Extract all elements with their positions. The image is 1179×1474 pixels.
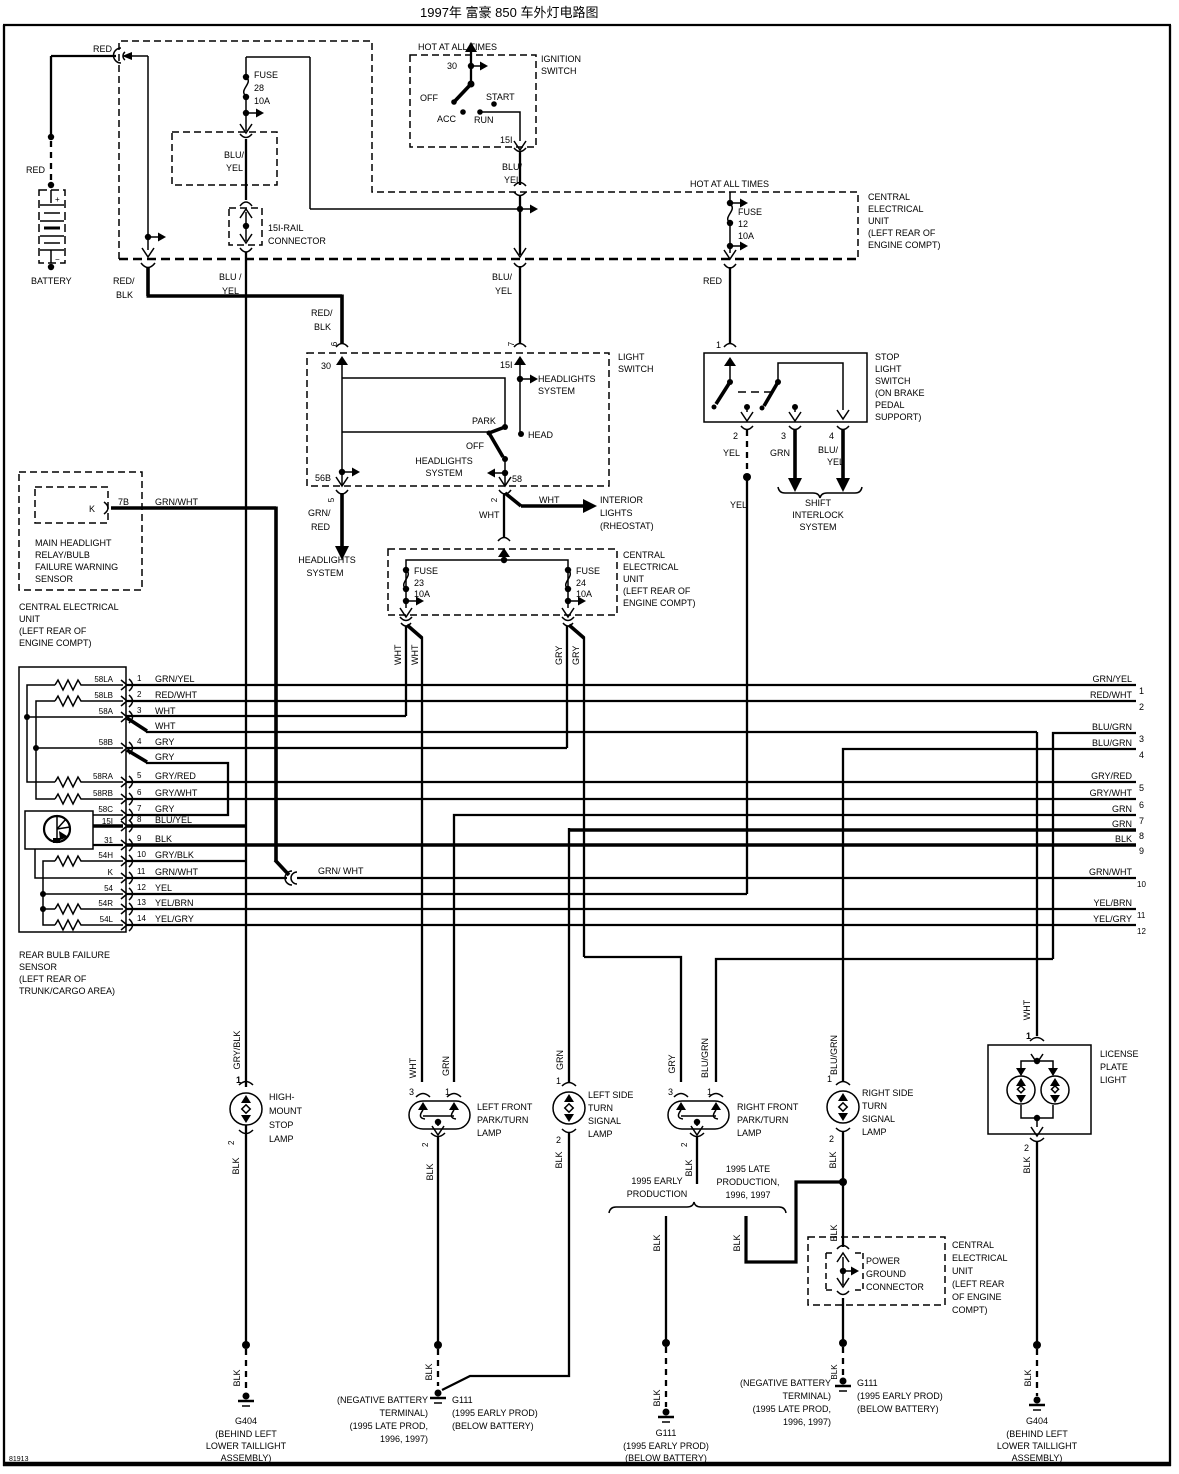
internal bus rows 2-4-6 [33, 701, 123, 799]
svg-text:2: 2 [421, 1142, 430, 1147]
svg-text:15I: 15I [500, 135, 513, 145]
svg-text:UNIT: UNIT [952, 1266, 973, 1276]
svg-text:SYSTEM: SYSTEM [799, 522, 836, 532]
svg-text:15I-RAIL: 15I-RAIL [268, 223, 304, 233]
svg-text:BLU/: BLU/ [502, 162, 523, 172]
svg-text:GRN: GRN [1112, 804, 1132, 814]
svg-text:1997年 富豪 850 车外灯电路图: 1997年 富豪 850 车外灯电路图 [420, 5, 598, 20]
CEU fuse 23/24 box [388, 549, 617, 615]
svg-text:(LEFT REAR OF: (LEFT REAR OF [19, 974, 87, 984]
contact pin 2 [741, 404, 753, 421]
stop light switch box [704, 353, 867, 422]
svg-text:15I: 15I [102, 817, 113, 826]
svg-text:ACC: ACC [437, 114, 457, 124]
pin 4 connector [121, 737, 142, 754]
svg-text:YEL: YEL [495, 286, 512, 296]
connector at CEU boundary (RED/BLK) [141, 263, 155, 268]
battery B+ wire (RED) [26, 56, 116, 188]
pin 11 connector [121, 867, 146, 884]
svg-text:BLU/: BLU/ [492, 272, 513, 282]
wire 12 YEL from stop light switch [126, 883, 747, 894]
svg-text:RED/: RED/ [113, 276, 135, 286]
svg-text:BLK: BLK [424, 1363, 434, 1380]
wire BLK 1995 early to ground [652, 1216, 670, 1407]
svg-text:BATTERY: BATTERY [31, 276, 72, 286]
pin 3 connector [789, 426, 801, 430]
15I-rail connector [229, 208, 326, 252]
contact PARK [502, 424, 508, 430]
svg-text:BLK: BLK [116, 290, 133, 300]
svg-text:4: 4 [1139, 750, 1144, 760]
wire BLU/YEL box to 15I-rail connector [240, 185, 252, 206]
wire GRY fuse 24 to right front lamp [569, 625, 681, 1082]
fuse 12 10A [724, 192, 762, 259]
fuse 24 output connector [562, 617, 574, 621]
svg-text:BLU/GRN: BLU/GRN [1092, 722, 1132, 732]
svg-text:12: 12 [1137, 927, 1146, 936]
svg-text:BLK: BLK [554, 1151, 564, 1168]
wire RED/BLK to light switch pin 6 [113, 268, 342, 343]
svg-text:BLK: BLK [828, 1151, 838, 1168]
svg-text:G111: G111 [452, 1395, 473, 1405]
svg-text:COMPT): COMPT) [952, 1305, 988, 1315]
1995 production split labels [627, 1164, 780, 1200]
svg-text:RUN: RUN [474, 115, 494, 125]
svg-text:BLK: BLK [732, 1234, 742, 1251]
svg-text:(1995 LATE PROD,: (1995 LATE PROD, [753, 1404, 831, 1414]
svg-text:BLK: BLK [1115, 834, 1132, 844]
title: 1997 Volvo 850 exterior lamps circuit diagram [420, 5, 598, 20]
svg-text:ENGINE COMPT): ENGINE COMPT) [19, 638, 92, 648]
svg-text:YEL/GRY: YEL/GRY [155, 914, 194, 924]
svg-text:12: 12 [137, 883, 146, 892]
svg-text:TURN: TURN [588, 1103, 613, 1113]
svg-text:ELECTRICAL: ELECTRICAL [623, 562, 679, 572]
terminal 30 feed arrow [447, 42, 488, 84]
wire 14 YEL/GRY [126, 914, 1146, 936]
svg-text:START: START [486, 92, 515, 102]
svg-text:GRY/BLK: GRY/BLK [232, 1031, 242, 1070]
svg-text:30: 30 [321, 361, 331, 371]
svg-text:BLU/GRN: BLU/GRN [1092, 738, 1132, 748]
svg-text:TURN: TURN [862, 1101, 887, 1111]
svg-text:GRY: GRY [155, 737, 174, 747]
svg-text:YEL: YEL [827, 457, 844, 467]
svg-text:SUPPORT): SUPPORT) [875, 412, 921, 422]
wire WHT fuse 23 to left front lamp [407, 625, 422, 1082]
svg-text:G111: G111 [857, 1378, 878, 1388]
wire fuse 28 feed from junction riser [246, 57, 520, 209]
wire 3 WHT to fuse 23 [126, 706, 406, 716]
svg-text:CENTRAL: CENTRAL [952, 1240, 994, 1250]
svg-text:LIGHT: LIGHT [618, 352, 645, 362]
svg-text:BLU/YEL: BLU/YEL [155, 815, 192, 825]
high-mount stop lamp [227, 1031, 302, 1175]
svg-text:58RA: 58RA [93, 772, 114, 781]
svg-text:RIGHT SIDE: RIGHT SIDE [862, 1088, 913, 1098]
svg-text:OF ENGINE: OF ENGINE [952, 1292, 1002, 1302]
svg-text:BLU /: BLU / [219, 272, 242, 282]
svg-text:12: 12 [738, 219, 748, 229]
pin 14 connector [121, 914, 146, 931]
svg-text:LIGHT: LIGHT [875, 364, 902, 374]
svg-text:GRN: GRN [1112, 819, 1132, 829]
wire BLU/YEL inside CEU to light switch [492, 196, 538, 343]
switch blade 2 [760, 379, 782, 411]
wire 11 GRN/WHT [126, 867, 1146, 889]
svg-text:OFF: OFF [466, 441, 484, 451]
svg-text:UNIT: UNIT [868, 216, 889, 226]
svg-text:9: 9 [1139, 846, 1144, 856]
svg-text:GRN/ WHT: GRN/ WHT [318, 866, 364, 876]
wire 4 BLU/GRN right to right side turn signal [843, 738, 1144, 1082]
svg-text:YEL: YEL [723, 448, 740, 458]
svg-text:WHT: WHT [479, 510, 500, 520]
svg-text:BLK: BLK [829, 1224, 839, 1241]
svg-text:PARK: PARK [472, 416, 496, 426]
svg-text:1995 EARLY: 1995 EARLY [631, 1176, 682, 1186]
svg-text:−: − [55, 255, 60, 264]
svg-text:HEADLIGHTS: HEADLIGHTS [415, 456, 473, 466]
left front park/turn lamp [408, 1056, 533, 1181]
svg-text:(BEHIND LEFT: (BEHIND LEFT [1006, 1429, 1068, 1439]
main headlight relay / bulb failure warning sensor box [19, 472, 142, 590]
pin 7 connector [121, 804, 142, 821]
svg-text:30: 30 [447, 61, 457, 71]
svg-text:2: 2 [1024, 1143, 1029, 1153]
svg-text:GRY: GRY [571, 646, 581, 665]
svg-text:(BELOW BATTERY): (BELOW BATTERY) [625, 1453, 707, 1463]
RED in-line connector [93, 44, 132, 63]
svg-text:RIGHT FRONT: RIGHT FRONT [737, 1102, 799, 1112]
svg-text:TRUNK/CARGO AREA): TRUNK/CARGO AREA) [19, 986, 115, 996]
terminal 15I [500, 356, 526, 434]
wire WHT fuse 23 to row 3 [393, 626, 406, 716]
svg-text:LOWER TAILLIGHT: LOWER TAILLIGHT [206, 1441, 287, 1451]
svg-text:WHT: WHT [539, 495, 560, 505]
svg-text:CENTRAL: CENTRAL [623, 550, 665, 560]
terminal 58 exit [487, 459, 522, 502]
svg-text:2: 2 [490, 497, 499, 502]
svg-text:(BELOW BATTERY): (BELOW BATTERY) [857, 1404, 939, 1414]
svg-text:FUSE: FUSE [414, 566, 438, 576]
svg-text:58A: 58A [99, 707, 114, 716]
svg-text:(NEGATIVE BATTERY: (NEGATIVE BATTERY [740, 1378, 831, 1388]
svg-text:YEL: YEL [222, 286, 239, 296]
svg-text:+: + [55, 195, 60, 204]
svg-text:2: 2 [829, 1134, 834, 1144]
svg-text:TERMINAL): TERMINAL) [782, 1391, 831, 1401]
wire right side turn signal to power ground connector [829, 1132, 847, 1247]
gang dashed link [738, 391, 772, 393]
svg-text:BLU/GRN: BLU/GRN [829, 1035, 839, 1075]
pin 4 connector [837, 426, 849, 430]
wire GRN/RED arrow to headlights system [298, 493, 356, 578]
internal resistor R-58LA [55, 680, 83, 690]
svg-text:OFF: OFF [420, 93, 438, 103]
internal resistor R-58LB [55, 696, 83, 706]
production split brace [609, 1202, 786, 1213]
svg-text:1: 1 [1026, 1031, 1031, 1041]
svg-text:(1995 EARLY PROD): (1995 EARLY PROD) [452, 1408, 538, 1418]
contact RUN [477, 109, 483, 115]
connector into CEU [498, 538, 510, 542]
wire 13 YEL/BRN [126, 898, 1146, 920]
svg-text:MAIN HEADLIGHT: MAIN HEADLIGHT [35, 538, 112, 548]
wire 4 GRY to fuse 24 [126, 737, 567, 748]
svg-text:MOUNT: MOUNT [269, 1106, 302, 1116]
wire 2 RED/WHT [126, 690, 1144, 712]
svg-text:GRN/WHT: GRN/WHT [155, 867, 198, 877]
wire GRY fuse 24 to row 4 [554, 626, 567, 748]
svg-text:(1995 EARLY PROD): (1995 EARLY PROD) [623, 1441, 709, 1451]
wire left front lamp to ground [424, 1136, 442, 1386]
svg-text:CENTRAL: CENTRAL [868, 192, 910, 202]
svg-text:BLU/GRN: BLU/GRN [700, 1038, 710, 1078]
svg-text:BLK: BLK [1023, 1369, 1033, 1386]
svg-text:WHT: WHT [155, 721, 176, 731]
svg-text:GRY: GRY [554, 646, 564, 665]
svg-text:54R: 54R [98, 899, 113, 908]
svg-text:WHT: WHT [408, 1057, 418, 1078]
svg-text:1996, 1997: 1996, 1997 [725, 1190, 770, 1200]
svg-text:REAR BULB FAILURE: REAR BULB FAILURE [19, 950, 110, 960]
svg-text:GRY: GRY [667, 1054, 677, 1073]
svg-text:BLK: BLK [155, 834, 172, 844]
svg-text:RED/: RED/ [311, 308, 333, 318]
splitter [501, 557, 507, 563]
svg-text:RED/WHT: RED/WHT [155, 690, 197, 700]
svg-text:GRN: GRN [555, 1050, 565, 1070]
svg-text:YEL/BRN: YEL/BRN [155, 898, 194, 908]
svg-text:PARK/TURN: PARK/TURN [737, 1115, 788, 1125]
wire WHT from 58 down [479, 493, 504, 538]
svg-text:BLK: BLK [1022, 1156, 1032, 1173]
license plate light [988, 999, 1139, 1173]
svg-text:HOT AT ALL TIMES: HOT AT ALL TIMES [418, 42, 497, 52]
svg-text:2: 2 [556, 1135, 561, 1145]
svg-text:GRN/YEL: GRN/YEL [155, 674, 195, 684]
svg-text:GRY/RED: GRY/RED [155, 771, 196, 781]
svg-text:GRN: GRN [770, 448, 790, 458]
wire blade to 56B [342, 431, 489, 433]
svg-text:(LEFT REAR: (LEFT REAR [952, 1279, 1005, 1289]
svg-text:(LEFT REAR OF: (LEFT REAR OF [623, 586, 691, 596]
wire left side turn signal to ground join [442, 1133, 569, 1390]
svg-text:9: 9 [137, 834, 142, 843]
svg-text:HEADLIGHTS: HEADLIGHTS [538, 374, 596, 384]
svg-text:(1995 LATE PROD,: (1995 LATE PROD, [350, 1421, 428, 1431]
svg-text:1: 1 [827, 1074, 832, 1084]
terminal 56B exit [315, 468, 360, 503]
svg-text:SHIFT: SHIFT [805, 498, 832, 508]
svg-text:6: 6 [137, 788, 142, 797]
pin 6 connector [121, 788, 142, 805]
svg-text:SYSTEM: SYSTEM [425, 468, 462, 478]
rear bulb failure sensor box [19, 667, 126, 932]
wire 7 GRN right to left front lamp [454, 804, 1144, 1082]
svg-text:LAMP: LAMP [477, 1128, 502, 1138]
central electrical unit dashed boundary (top left) [119, 41, 858, 259]
svg-text:RED: RED [93, 44, 113, 54]
svg-text:BLK: BLK [231, 1157, 241, 1174]
svg-text:BLK: BLK [830, 1364, 839, 1380]
svg-text:K: K [89, 504, 95, 514]
svg-text:3: 3 [409, 1087, 414, 1097]
svg-text:ELECTRICAL: ELECTRICAL [952, 1253, 1008, 1263]
svg-text:FUSE: FUSE [576, 566, 600, 576]
wire 30 to PARK contact [342, 378, 505, 427]
svg-text:GRY/WHT: GRY/WHT [155, 788, 198, 798]
svg-text:14: 14 [137, 914, 146, 923]
svg-text:58LA: 58LA [94, 675, 113, 684]
svg-text:2: 2 [1139, 702, 1144, 712]
svg-text:GRN: GRN [441, 1056, 451, 1076]
svg-text:7: 7 [1139, 816, 1144, 826]
svg-text:15I: 15I [500, 360, 513, 370]
svg-text:PEDAL: PEDAL [875, 400, 905, 410]
svg-text:13: 13 [137, 898, 146, 907]
svg-text:BLU/: BLU/ [224, 150, 245, 160]
wire high-mount lamp to ground [232, 1125, 250, 1392]
svg-text:GRY: GRY [155, 804, 174, 814]
svg-text:54L: 54L [100, 915, 114, 924]
svg-text:UNIT: UNIT [19, 614, 40, 624]
svg-text:GRY/RED: GRY/RED [1091, 771, 1132, 781]
svg-text:SENSOR: SENSOR [35, 574, 74, 584]
internal resistor R-58RB [55, 794, 83, 804]
svg-text:LAMP: LAMP [588, 1129, 613, 1139]
svg-text:10A: 10A [254, 96, 270, 106]
svg-text:ENGINE COMPT): ENGINE COMPT) [623, 598, 696, 608]
svg-text:2: 2 [227, 1140, 236, 1145]
wire 5 GRY/RED [126, 771, 1144, 793]
svg-text:LAMP: LAMP [269, 1134, 294, 1144]
light switch box [307, 353, 609, 486]
svg-text:BLK: BLK [314, 322, 331, 332]
internal wire K row 11 to indicator [35, 849, 123, 878]
svg-text:(BEHIND LEFT: (BEHIND LEFT [215, 1429, 277, 1439]
left side turn signal lamp [553, 1050, 633, 1169]
wire GRN/WHT from relay K [111, 497, 289, 875]
svg-text:SENSOR: SENSOR [19, 962, 58, 972]
svg-text:LICENSE: LICENSE [1100, 1049, 1139, 1059]
pin 13 connector [121, 898, 146, 915]
svg-text:8: 8 [137, 815, 142, 824]
svg-text:SWITCH: SWITCH [875, 376, 911, 386]
terminal 30 [321, 356, 348, 485]
internal resistor R-54L [55, 920, 83, 930]
wire blade2 to pin 4 [778, 363, 843, 410]
svg-text:4: 4 [137, 737, 142, 746]
svg-text:1: 1 [716, 340, 721, 350]
svg-text:HOT AT ALL TIMES: HOT AT ALL TIMES [690, 179, 769, 189]
right side turn signal lamp [827, 1035, 913, 1169]
svg-text:LEFT FRONT: LEFT FRONT [477, 1102, 533, 1112]
svg-text:WHT: WHT [155, 706, 176, 716]
light switch blade [466, 427, 508, 462]
svg-text:3: 3 [1139, 734, 1144, 744]
svg-text:GRN/YEL: GRN/YEL [1092, 674, 1132, 684]
svg-text:SWITCH: SWITCH [541, 66, 577, 76]
wire BLU/GRN jog to right front lamp [716, 959, 1053, 1082]
svg-text:PRODUCTION: PRODUCTION [627, 1189, 688, 1199]
wire YEL from pin 2 [723, 430, 751, 894]
GRN/WHT in-line connector [285, 866, 364, 885]
svg-text:G111: G111 [656, 1428, 677, 1438]
svg-text:CONNECTOR: CONNECTOR [268, 236, 326, 246]
svg-text:10: 10 [137, 850, 146, 859]
svg-text:BLK: BLK [652, 1234, 662, 1251]
svg-text:SIGNAL: SIGNAL [862, 1114, 895, 1124]
svg-text:BLU/: BLU/ [818, 445, 839, 455]
fuse 23 10A [400, 566, 438, 617]
pin 2 connector [121, 690, 142, 707]
wire BLU/YEL arrow to shift interlock [818, 430, 850, 492]
svg-text:28: 28 [254, 83, 264, 93]
svg-text:PLATE: PLATE [1100, 1062, 1128, 1072]
svg-text:GRY: GRY [155, 752, 174, 762]
wire RUN to 15I pin [480, 112, 526, 152]
contact pin 3 [789, 404, 801, 421]
BLU/YEL connector box [172, 132, 277, 185]
svg-text:IGNITION: IGNITION [541, 54, 581, 64]
svg-text:INTERIOR: INTERIOR [600, 495, 644, 505]
svg-text:1995 LATE: 1995 LATE [726, 1164, 770, 1174]
svg-text:FUSE: FUSE [738, 207, 762, 217]
svg-text:FUSE: FUSE [254, 70, 278, 80]
central electrical unit bottom dashed boundary [119, 258, 858, 261]
svg-text:WHT: WHT [393, 644, 403, 665]
svg-text:2: 2 [733, 431, 738, 441]
svg-text:11: 11 [137, 867, 146, 876]
headlights system tap [517, 374, 596, 396]
svg-text:G404: G404 [1026, 1416, 1048, 1426]
svg-text:BLK: BLK [425, 1163, 435, 1180]
bulb outage indicator [25, 811, 123, 849]
svg-text:GRN/WHT: GRN/WHT [1089, 867, 1132, 877]
svg-text:GROUND: GROUND [866, 1269, 906, 1279]
battery [31, 190, 72, 286]
svg-text:(LEFT REAR OF: (LEFT REAR OF [19, 626, 87, 636]
svg-text:POWER: POWER [866, 1256, 901, 1266]
contact HEAD [518, 431, 524, 437]
svg-text:54H: 54H [98, 851, 113, 860]
svg-text:RED: RED [311, 522, 331, 532]
svg-text:LOWER TAILLIGHT: LOWER TAILLIGHT [997, 1441, 1078, 1451]
svg-text:58C: 58C [98, 805, 113, 814]
svg-text:STOP: STOP [269, 1120, 293, 1130]
svg-text:2: 2 [137, 690, 142, 699]
pin 1 connector [121, 674, 142, 691]
svg-text:YEL: YEL [226, 163, 243, 173]
svg-text:LEFT SIDE: LEFT SIDE [588, 1090, 633, 1100]
svg-text:STOP: STOP [875, 352, 899, 362]
svg-text:(BELOW BATTERY): (BELOW BATTERY) [452, 1421, 534, 1431]
svg-text:YEL/BRN: YEL/BRN [1093, 898, 1132, 908]
svg-text:3: 3 [781, 431, 786, 441]
svg-text:K: K [108, 868, 114, 877]
svg-text:10: 10 [1137, 880, 1146, 889]
wire 10 GRY/BLK to high-mount stop lamp [126, 850, 246, 861]
svg-text:(NEGATIVE BATTERY: (NEGATIVE BATTERY [337, 1395, 428, 1405]
svg-text:HEAD: HEAD [528, 430, 554, 440]
svg-text:5: 5 [137, 771, 142, 780]
fuse 28 10A [240, 57, 278, 133]
svg-text:58B: 58B [99, 738, 113, 747]
svg-text:UNIT: UNIT [623, 574, 644, 584]
svg-text:YEL: YEL [155, 883, 172, 893]
